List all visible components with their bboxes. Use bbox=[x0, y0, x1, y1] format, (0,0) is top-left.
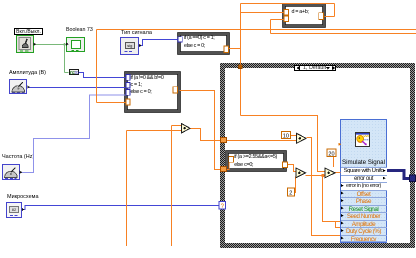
enum control Тип сигнала icon bbox=[120, 37, 139, 55]
FN1 input terminal f bbox=[126, 89, 130, 95]
boolean control Вкл./Выкл. label bbox=[14, 28, 43, 35]
wire: dynamic data to right tunnel bbox=[387, 171, 410, 179]
numeric constant 10 bbox=[282, 132, 291, 140]
wire: FN3 d down to FN1 orange input bbox=[97, 30, 127, 103]
wire: T_B output to T_C bbox=[306, 175, 325, 177]
tunnel on case left border (FN1 c) bbox=[221, 167, 227, 172]
case selector label bbox=[294, 65, 336, 72]
FN1 input terminal a bbox=[126, 74, 130, 80]
knob control Частота (Hz) label bbox=[2, 155, 34, 161]
svg-text:10: 10 bbox=[283, 133, 289, 139]
Амплитуда knob graphic bbox=[12, 82, 30, 93]
wire: Микросхема to case selector terminal bbox=[22, 206, 219, 210]
numeric constant 20 bbox=[327, 149, 336, 157]
express VI rows bbox=[341, 167, 387, 175]
knob control Амплитуда (В) icon bbox=[9, 79, 27, 95]
wire: tunnel to multiply T_A bbox=[227, 140, 297, 142]
boolean control Вкл./Выкл. icon bbox=[16, 35, 34, 54]
wire: constant 10 to T_A bbox=[291, 135, 297, 137]
tunnel on case left border (T1 output) bbox=[221, 138, 227, 143]
wire: Амплитуда to formula node b bbox=[27, 87, 126, 89]
wire: FN1 left output across to FN3 b and off right edge bbox=[97, 20, 416, 34]
Тип сигнала enum marks bbox=[125, 44, 142, 52]
FN4 input terminal a bbox=[229, 157, 234, 163]
numeric control Микросхема label bbox=[7, 195, 39, 201]
svg-text:20: 20 bbox=[328, 151, 334, 157]
wire: branch down to Boolean-To-(0,1) bbox=[65, 45, 69, 73]
wire: T_C output to Square signal row bbox=[335, 172, 341, 174]
FN4 output terminal c bbox=[283, 162, 288, 168]
boolean indicator Boolean 73 icon bbox=[66, 37, 85, 52]
wire: tunnel branch to add T_C upper input bbox=[241, 116, 326, 172]
FN3 output terminal d bbox=[319, 13, 324, 20]
case selector terminal bbox=[219, 202, 225, 210]
numeric constant 2 bbox=[288, 188, 295, 196]
wire: T1 lower input from below bbox=[127, 131, 182, 247]
formula node FN4 bbox=[226, 151, 286, 171]
express VI: Simulate Signal bbox=[340, 119, 387, 244]
Boolean To (0,1) conversion node bbox=[69, 69, 80, 75]
wire: Частота to formula node FN1 bbox=[20, 95, 126, 173]
FN1 output terminal c bbox=[173, 87, 178, 94]
Вкл./Выкл. switch graphic bbox=[19, 38, 36, 51]
express VI output row arrows bbox=[383, 169, 386, 179]
junction dot on boolean wire bbox=[63, 43, 66, 46]
wire: FN4 output to multiply T_B bbox=[287, 165, 296, 172]
formula node FN1 bbox=[125, 72, 180, 113]
FN2 output terminal c bbox=[224, 46, 229, 53]
wire: FN1 output c down to case tunnel bbox=[180, 91, 222, 170]
svg-text:2: 2 bbox=[289, 191, 292, 197]
formula node FN3 bbox=[283, 4, 325, 27]
wire: Boolean-To-(0,1) to formula node a bbox=[79, 73, 126, 78]
boolean indicator Boolean 73 label bbox=[66, 28, 93, 33]
express VI icon-row input mark bbox=[338, 143, 341, 146]
wire: junction down to Amplitude input bbox=[323, 176, 341, 222]
wire: Тип сигнала to formula node FN2 bbox=[139, 40, 178, 46]
express VI title bbox=[341, 160, 387, 166]
knob control Амплитуда (В) label bbox=[9, 71, 46, 77]
wire: Вкл./Выкл. to Boolean 73 bbox=[34, 44, 67, 46]
wire: T_A output to Frequency input bbox=[307, 138, 341, 236]
Микросхема display marks bbox=[10, 208, 24, 216]
svg-text:01: 01 bbox=[75, 70, 80, 75]
increment node T1 bbox=[182, 124, 191, 134]
express VI icon bbox=[355, 132, 370, 147]
FN3 input terminal a bbox=[284, 10, 288, 15]
wire: constant 20 to T_C bbox=[333, 157, 335, 168]
tunnel on case right border (signal out) bbox=[410, 175, 416, 182]
case structure border bbox=[220, 63, 415, 68]
Boolean 73 LED marks bbox=[66, 43, 78, 51]
add node T_C bbox=[325, 168, 335, 178]
FN3 input terminal b bbox=[284, 16, 288, 21]
tunnel on case top border bbox=[238, 65, 242, 69]
wire: constant 2 to T_B bbox=[295, 177, 296, 193]
wire: branch to Duty Cycle input bbox=[336, 222, 341, 228]
FN1 input terminal b bbox=[126, 82, 130, 88]
numeric control Микросхема icon bbox=[6, 202, 22, 218]
Boolean-To-(0,1) glyph bbox=[69, 70, 80, 76]
wire: tunnel to FN4 input a bbox=[227, 160, 231, 170]
wire: FN2 output c up and across top bbox=[229, 4, 335, 116]
FN2 input terminal a bbox=[178, 37, 182, 42]
case selector label arrows bbox=[296, 66, 335, 70]
enum control Тип сигнала label bbox=[121, 31, 152, 37]
knob control Частота (Hz) icon bbox=[2, 164, 20, 181]
wire: T1 output to case tunnel bbox=[190, 129, 221, 141]
multiply node T_B bbox=[296, 168, 306, 178]
FN1 left output terminal d bbox=[126, 99, 130, 105]
Частота knob graphic bbox=[5, 168, 23, 179]
formula node FN2 bbox=[178, 33, 229, 54]
multiply node T_A bbox=[297, 133, 307, 143]
express VI input row arrows bbox=[341, 184, 344, 239]
junction dot on T_B output wire bbox=[321, 174, 324, 177]
wire: T1 upper input from below bbox=[172, 126, 182, 247]
